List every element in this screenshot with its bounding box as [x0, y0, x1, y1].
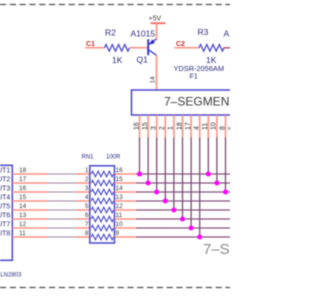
svg-text:18: 18 — [19, 167, 27, 174]
wire C2 to R3 — [175, 47, 200, 49]
svg-text:15: 15 — [19, 194, 27, 201]
label Q1 — [137, 55, 149, 65]
label R2 — [105, 28, 116, 38]
ULN2803 box U? — [0, 165, 12, 260]
svg-text:OUT1: OUT1 — [0, 168, 10, 175]
svg-text:11: 11 — [202, 123, 209, 130]
svg-text:15: 15 — [142, 122, 149, 130]
svg-text:R2: R2 — [105, 28, 116, 38]
svg-text:+5V: +5V — [149, 16, 162, 23]
power port +5V — [149, 16, 166, 24]
resistor R3 — [199, 45, 224, 52]
svg-text:YDSR-2056AM: YDSR-2056AM — [174, 64, 225, 73]
wire Q1 collector to display pin 14 — [156, 55, 158, 91]
net label C1 — [86, 41, 95, 48]
svg-text:18: 18 — [176, 122, 183, 130]
svg-text:1: 1 — [85, 167, 89, 174]
7-segment display box F1 — [132, 90, 244, 115]
svg-text:17: 17 — [185, 122, 192, 130]
RN1 left pin numbers 1-8 — [85, 167, 89, 237]
svg-text:2: 2 — [85, 176, 89, 183]
right row wires RN1 to verticals (pin stubs + wires) — [115, 174, 231, 237]
resistor network RN1 box — [90, 166, 115, 243]
display bottom pin numbers (rotated) — [133, 122, 235, 130]
svg-text:3: 3 — [85, 185, 89, 192]
svg-text:ULN2803: ULN2803 — [0, 272, 22, 278]
net label 7-SEG (clipped) — [203, 241, 251, 258]
RN1 right pin numbers 16-9 — [116, 167, 124, 237]
label R3 — [198, 27, 209, 37]
svg-text:8: 8 — [219, 126, 226, 130]
svg-text:9: 9 — [116, 230, 120, 237]
pin number 14 (display top pin) — [150, 76, 157, 84]
svg-text:1: 1 — [168, 126, 175, 130]
svg-text:4: 4 — [85, 194, 89, 201]
svg-text:15: 15 — [116, 176, 124, 183]
svg-text:10: 10 — [211, 122, 218, 130]
svg-text:A1015: A1015 — [131, 28, 156, 38]
svg-text:11: 11 — [116, 212, 123, 219]
ULN pin numbers 18-11 — [19, 167, 27, 237]
svg-text:OUT3: OUT3 — [0, 186, 10, 193]
svg-text:6: 6 — [85, 212, 89, 219]
svg-text:2: 2 — [159, 126, 166, 130]
svg-text:F1: F1 — [190, 72, 198, 81]
svg-text:4: 4 — [194, 126, 201, 130]
ULN pin names OUT1-OUT8 — [0, 168, 10, 238]
svg-text:100R: 100R — [106, 155, 121, 161]
svg-text:14: 14 — [116, 185, 124, 192]
svg-text:C1: C1 — [86, 41, 95, 48]
label YDSR-2056AM (display comment) — [174, 64, 225, 73]
svg-text:8: 8 — [85, 230, 89, 237]
value 1K (R3) — [206, 55, 217, 65]
label ULN2803 — [0, 272, 22, 278]
label A1015 (Q2, clipped) — [224, 28, 249, 38]
svg-text:16: 16 — [116, 167, 124, 174]
svg-text:5: 5 — [85, 203, 89, 210]
wire R2 to Q1 base — [130, 47, 148, 49]
svg-text:13: 13 — [116, 194, 124, 201]
svg-text:7: 7 — [85, 221, 89, 228]
label RN1 — [82, 155, 95, 161]
net label C2 — [176, 41, 185, 48]
wire +5V to Q1 emitter — [156, 23, 158, 39]
svg-text:C2: C2 — [176, 41, 185, 48]
label A1015 (Q1) — [131, 28, 156, 38]
svg-text:17: 17 — [19, 176, 27, 183]
value 1K (R2) — [112, 55, 123, 65]
svg-text:10: 10 — [116, 221, 124, 228]
sheet border top (dashed) — [0, 4, 230, 6]
svg-text:14: 14 — [150, 76, 157, 84]
svg-text:R3: R3 — [198, 27, 209, 37]
wire C1 to R2 — [85, 47, 105, 49]
svg-text:A1015: A1015 — [224, 28, 231, 38]
svg-text:12: 12 — [19, 221, 27, 228]
svg-text:OUT5: OUT5 — [0, 204, 10, 211]
svg-text:1K: 1K — [112, 55, 123, 65]
junction dots — [137, 172, 228, 240]
svg-text:7–SEGMENT: 7–SEGMENT — [164, 95, 230, 109]
svg-text:7–SEG: 7–SEG — [203, 241, 230, 258]
svg-text:OUT7: OUT7 — [0, 222, 10, 229]
value 100R — [106, 155, 121, 161]
display bottom pins (stubs) — [140, 115, 226, 138]
vertical wires from display pins — [140, 138, 226, 238]
svg-text:OUT8: OUT8 — [0, 231, 10, 238]
svg-text:14: 14 — [19, 203, 27, 210]
svg-text:OUT4: OUT4 — [0, 195, 10, 202]
left row wires ULN to RN1 (pin stubs + wire) — [12, 174, 90, 237]
transistor Q1 (PNP A1015) — [148, 39, 157, 56]
sheet border bottom (dashed) — [0, 287, 230, 289]
svg-text:Q1: Q1 — [137, 55, 149, 65]
resistor R2 — [105, 45, 130, 52]
svg-text:16: 16 — [133, 122, 140, 130]
label F1 (display designator) — [190, 72, 198, 81]
svg-text:12: 12 — [116, 203, 124, 210]
svg-text:OUT6: OUT6 — [0, 213, 10, 220]
wire R3 to right edge — [224, 47, 231, 49]
svg-text:6: 6 — [228, 126, 230, 130]
svg-text:13: 13 — [19, 212, 27, 219]
svg-text:11: 11 — [19, 230, 26, 237]
svg-text:3: 3 — [151, 126, 158, 130]
svg-text:16: 16 — [19, 185, 27, 192]
svg-text:OUT2: OUT2 — [0, 177, 10, 184]
svg-text:RN1: RN1 — [82, 155, 95, 161]
RN1 internal resistor zigzags — [91, 171, 113, 240]
